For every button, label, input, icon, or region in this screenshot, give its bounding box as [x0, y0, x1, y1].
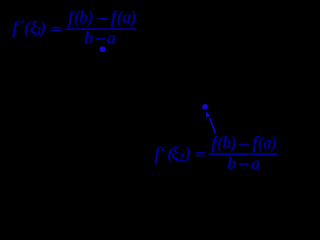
formula label 2: f'(xi2) = (f(b)-f(a))/(b-a): [154, 133, 277, 173]
svg-text:f(a): f(a): [111, 7, 137, 28]
arrowhead of pointer to xi2: [206, 111, 210, 117]
equals sign: [195, 152, 205, 153]
arrow shaft: [209, 118, 215, 134]
svg-text:f(b): f(b): [68, 7, 94, 28]
denominator minus: [96, 38, 106, 40]
svg-text:f(a): f(a): [252, 133, 277, 154]
prime: [21, 20, 23, 24]
svg-text:b: b: [227, 153, 236, 173]
svg-text:b: b: [84, 28, 93, 48]
equals sign: [51, 27, 62, 29]
numerator minus: [97, 18, 107, 20]
svg-text:): ): [183, 143, 191, 164]
formula label 1: f'(xi1) = (f(b)-f(a))/(b-a): [12, 7, 137, 47]
fraction bar: [209, 153, 277, 155]
prime: [162, 147, 164, 151]
svg-text:f(b): f(b): [211, 133, 237, 154]
denominator minus: [239, 163, 248, 165]
svg-text:2: 2: [177, 150, 184, 164]
fraction bar: [65, 28, 136, 30]
svg-text:a: a: [107, 28, 116, 48]
svg-text:a: a: [251, 153, 260, 173]
point xi1 dot: [100, 46, 106, 52]
numerator minus: [239, 144, 249, 146]
point xi2 dot: [202, 104, 208, 110]
svg-text:): ): [38, 17, 46, 38]
